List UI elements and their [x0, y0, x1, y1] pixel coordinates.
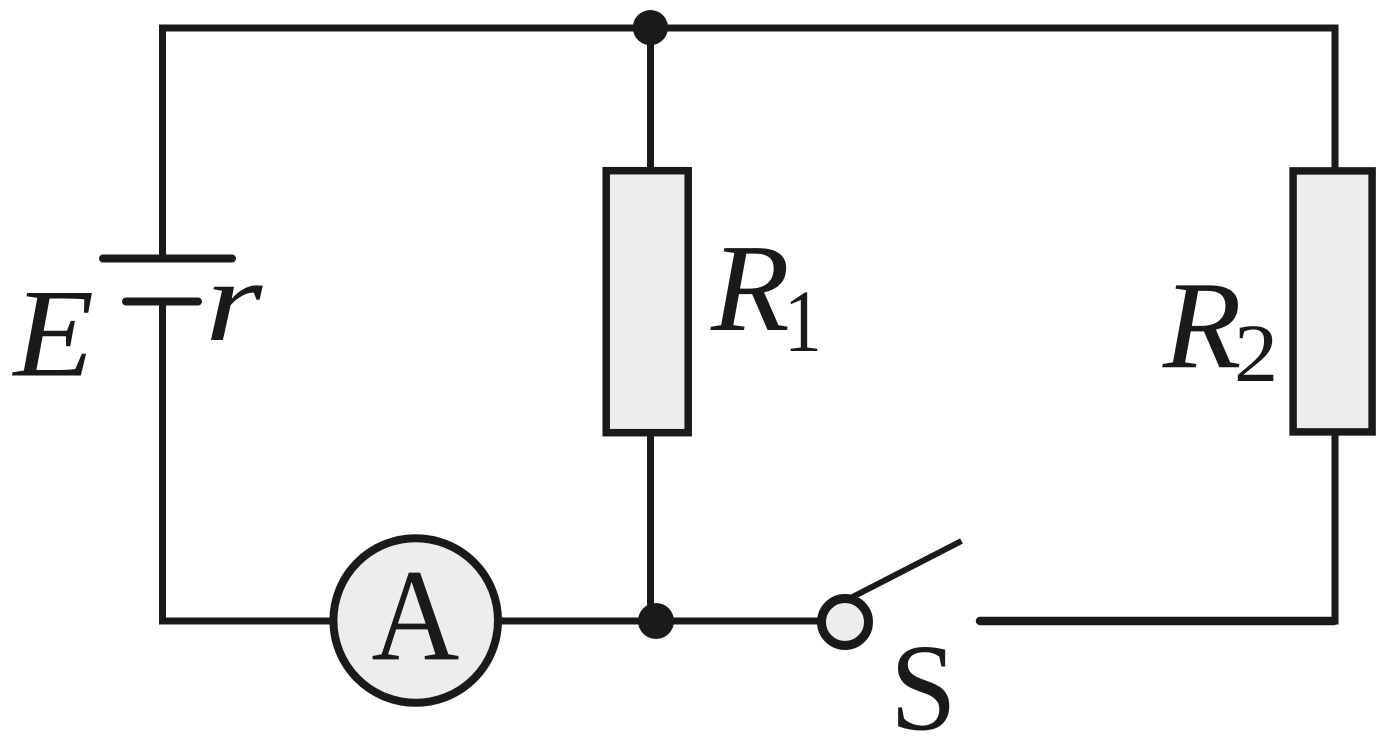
- svg-text:R: R: [1162, 257, 1242, 395]
- svg-text:A: A: [371, 543, 459, 688]
- wire ammeter to switch: [500, 618, 818, 625]
- svg-text:S: S: [890, 619, 957, 741]
- resistor R1 lead bottom: [647, 433, 654, 622]
- svg-text:r: r: [205, 237, 263, 366]
- resistor R1: [606, 171, 688, 433]
- svg-text:1: 1: [784, 271, 822, 370]
- wire right upper: [1332, 25, 1339, 171]
- switch S: [822, 541, 962, 646]
- label R2: [1162, 257, 1279, 399]
- svg-text:2: 2: [1234, 307, 1278, 400]
- node top junction: [633, 10, 668, 45]
- wire left upper (battery positive lead): [159, 25, 166, 259]
- wire left lower (battery negative lead): [159, 301, 166, 625]
- wire top: [159, 25, 1339, 32]
- ammeter A: [333, 538, 498, 703]
- svg-text:E: E: [11, 263, 94, 403]
- battery long plate: [103, 255, 232, 263]
- wire right lower: [1332, 433, 1339, 625]
- label R1: [710, 220, 822, 371]
- svg-text:R: R: [710, 220, 790, 358]
- resistor R2: [1293, 171, 1372, 432]
- wire switch to R2 (bottom right): [980, 617, 1334, 626]
- resistor R1 lead top: [647, 27, 654, 170]
- node bottom junction: [638, 603, 674, 639]
- battery short plate: [126, 298, 198, 306]
- wire bottom left (to ammeter): [159, 618, 332, 625]
